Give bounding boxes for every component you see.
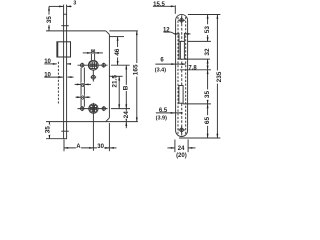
arrow dim10r1 left xyxy=(67,63,71,65)
svg-text:10: 10 xyxy=(44,59,51,65)
label 8 mid1 xyxy=(81,82,84,87)
dim 10 row2 right tail xyxy=(67,76,73,78)
svg-text:(3.9): (3.9) xyxy=(156,115,167,121)
svg-text:46: 46 xyxy=(114,48,121,56)
latch bolt edge inside cutout xyxy=(179,41,181,59)
top hub hatch xyxy=(91,62,93,69)
dim column line 53/32/35/65 xyxy=(207,15,209,42)
dim 21.5 line xyxy=(118,76,120,108)
bottom hub vertical centerline down to A row xyxy=(92,103,94,151)
right ext line bolt cutout bottom xyxy=(183,103,211,105)
arrow dim3 right xyxy=(59,5,63,7)
strip bottom cap xyxy=(63,138,67,140)
arrow dim8m2 right xyxy=(77,96,81,98)
faceplate side view strip right edge xyxy=(66,14,68,139)
dim 6 (3.4) leader xyxy=(155,63,185,65)
svg-text:30: 30 xyxy=(97,144,104,150)
dim 8 top ext lines xyxy=(90,49,92,60)
ext case right down to A row xyxy=(108,123,110,151)
svg-text:A: A xyxy=(76,144,81,150)
right ext line latch cutout bottom xyxy=(184,58,210,60)
svg-text:8: 8 xyxy=(81,83,84,89)
svg-text:24: 24 xyxy=(178,146,185,152)
arrow dim30 right inside xyxy=(105,147,109,149)
arrow dim165 down xyxy=(136,117,138,121)
case bottom edge + ext both sides xyxy=(46,121,106,123)
dim 35 top line xyxy=(48,6,50,31)
case top edge + ext both sides xyxy=(46,30,106,32)
arrow dim8top right xyxy=(87,52,91,54)
faceplate side view strip left edge xyxy=(63,14,65,139)
right ext line at bottom hub 108.6 xyxy=(111,108,130,110)
right ext line at 36.6 for dim 46 xyxy=(109,36,124,38)
label 35 top xyxy=(46,15,51,25)
screw below top hub xyxy=(91,75,95,79)
arrow dim10r1 right xyxy=(53,63,57,65)
dim 24(20) ext lines xyxy=(174,140,176,153)
dim 35 bottom line xyxy=(48,122,50,139)
case bottom right chamfer xyxy=(106,118,110,122)
dim A line xyxy=(64,147,93,149)
dim 8 mid1 arrow lines xyxy=(75,83,81,85)
label 8 top xyxy=(92,50,95,54)
arrow dim35bot down xyxy=(48,135,50,139)
hidden case dashed line right xyxy=(185,17,187,135)
arrows dim235 xyxy=(216,15,218,19)
label 65 xyxy=(204,115,209,126)
arrow dim35bot up xyxy=(48,122,50,126)
label 30 xyxy=(97,143,104,149)
dim 8 mid2 arrow lines xyxy=(76,96,82,98)
arrow dim165 up xyxy=(136,31,138,35)
right ext line 7.8 level xyxy=(180,69,211,71)
svg-text:35: 35 xyxy=(46,16,53,24)
dim 46 line xyxy=(117,37,119,66)
strip tick lower xyxy=(61,130,69,132)
dim 24(20) arrow tails xyxy=(167,147,174,149)
top hub vertical centerline to screw below xyxy=(92,70,94,82)
arrow dim10r2 right xyxy=(59,76,63,78)
ext line strip bottom level left xyxy=(46,138,63,140)
top hub square hole xyxy=(90,62,97,69)
top left screw xyxy=(80,63,84,67)
label 53 xyxy=(204,24,209,35)
label B xyxy=(123,85,127,91)
faceplate front view outline (stadium) xyxy=(176,14,188,136)
svg-text:12: 12 xyxy=(163,28,170,34)
dim B line xyxy=(125,65,127,108)
label A xyxy=(76,143,81,149)
right ext line at 76.3 xyxy=(109,75,122,77)
deadbolt cutout xyxy=(179,86,183,104)
arrow dimB down xyxy=(125,104,127,108)
dashed latch projection line xyxy=(57,62,59,104)
arrow dim8top left xyxy=(95,52,99,54)
case right edge xyxy=(108,35,110,118)
right ext line at hub center 65.2 xyxy=(111,64,130,66)
latch bolt rectangle xyxy=(57,42,71,57)
bottom right screw xyxy=(102,107,106,111)
arrows column 53/32/35/65 xyxy=(207,15,209,19)
arrow dimB up xyxy=(125,65,127,69)
svg-text:65: 65 xyxy=(204,117,211,125)
bottom hub hatch xyxy=(91,105,93,112)
arrow dim8m2 left xyxy=(84,96,88,98)
arrow dim6 right at plate edge xyxy=(171,63,175,65)
arrow dim15.5 right xyxy=(171,5,175,7)
svg-text:(3.4): (3.4) xyxy=(155,67,166,73)
arrows dim24(20) xyxy=(171,147,175,149)
dim 3 line left / dim 35 top ref xyxy=(49,5,63,7)
arrow dim21.5 down xyxy=(118,104,120,108)
label 165 xyxy=(133,63,138,77)
label 8 mid2 xyxy=(81,95,84,100)
svg-text:32: 32 xyxy=(204,48,211,56)
arrow dim21.5 up xyxy=(118,76,120,80)
dim 10 row1 leader line xyxy=(44,63,57,65)
dim 235 line xyxy=(216,15,218,139)
arrow dim12 right xyxy=(175,33,179,35)
strip tick upper xyxy=(61,25,69,27)
arrow dim8m1 left xyxy=(84,83,88,85)
arrow dimA left xyxy=(64,147,68,149)
arrow dim8m1 right xyxy=(77,83,81,85)
dim 15.5 underline and leader xyxy=(153,5,175,7)
dim 24 line xyxy=(125,109,127,122)
arrow dim6.5 right at plate edge xyxy=(171,112,175,114)
strip top cap xyxy=(63,13,67,15)
svg-text:15.5: 15.5 xyxy=(153,2,165,8)
label 24 right column xyxy=(124,111,129,119)
svg-text:35: 35 xyxy=(204,91,211,99)
svg-text:7.8: 7.8 xyxy=(188,65,197,71)
dim 24 outside tail below xyxy=(125,122,127,129)
top right screw xyxy=(102,63,106,67)
arrow dim10r2 left xyxy=(67,76,71,78)
svg-text:6: 6 xyxy=(160,58,164,64)
top hub row centerline xyxy=(78,64,108,66)
plate centre dashed line xyxy=(181,15,183,136)
svg-text:21.5: 21.5 xyxy=(112,75,119,88)
arrow dim35top up xyxy=(48,6,50,10)
svg-text:10: 10 xyxy=(44,72,51,78)
dim 30 line with outside tail xyxy=(93,147,109,149)
svg-text:235: 235 xyxy=(216,71,223,82)
arrow dim46 down xyxy=(117,61,119,65)
bottom hub row centerline xyxy=(78,108,108,110)
svg-text:24: 24 xyxy=(123,111,130,119)
right ext line plate bottom xyxy=(179,137,220,139)
svg-text:8: 8 xyxy=(91,50,94,56)
case top right chamfer xyxy=(106,31,110,35)
dim 8 mid1 ext lines xyxy=(80,68,82,107)
dim 12 leader xyxy=(171,32,175,34)
top hub follower circle xyxy=(88,60,98,70)
bottom hub follower circle xyxy=(89,104,98,113)
arrow dim24 up outside xyxy=(125,122,127,126)
svg-text:3: 3 xyxy=(73,1,76,7)
svg-text:B: B xyxy=(122,85,129,90)
dim 165 line xyxy=(136,31,138,122)
dim 12 right tail xyxy=(185,33,191,35)
top screw circle xyxy=(180,19,184,23)
dim 8 top arrow lines xyxy=(83,52,92,54)
arrow dim3 left xyxy=(67,5,71,7)
hidden case dashed line left xyxy=(177,17,179,135)
svg-text:(20): (20) xyxy=(176,153,187,159)
dim 6.5 (3.9) leader xyxy=(156,112,182,114)
dim 12 ext lines xyxy=(178,33,180,42)
label 35 bottom xyxy=(45,124,50,135)
arrow dim30 left outside xyxy=(110,147,114,149)
arrow dim6 right at dashed line xyxy=(182,63,186,65)
dim 10 row2 leader line xyxy=(44,76,63,78)
arrow dim6.5 left at dashed line xyxy=(178,112,182,114)
label 46 xyxy=(114,47,119,57)
right ext line plate top xyxy=(188,14,221,16)
arrow dim35top down xyxy=(48,27,50,31)
arrow dim12 left xyxy=(184,33,188,35)
arrow dim24 down xyxy=(125,117,127,121)
svg-text:6.5: 6.5 xyxy=(159,108,168,114)
dim 3 tail right xyxy=(67,5,72,7)
bottom hub square hole xyxy=(90,105,97,112)
dim 12 underline xyxy=(164,31,172,33)
arrow dimA right xyxy=(89,147,93,149)
bottom screw circle xyxy=(180,128,184,132)
dim 10 row1 right tail xyxy=(67,63,71,65)
ext lines above strip for dim 3 xyxy=(63,5,65,15)
bottom left screw xyxy=(80,107,84,111)
arrow dim46 up xyxy=(117,37,119,41)
dim 15.5 ref vertical ext xyxy=(174,5,176,14)
svg-text:8: 8 xyxy=(81,95,84,101)
ext strip down to A row xyxy=(63,140,65,152)
svg-text:53: 53 xyxy=(204,26,211,34)
label 35 right xyxy=(204,89,209,99)
svg-text:35: 35 xyxy=(45,126,52,134)
label 235 xyxy=(217,70,222,83)
latch cutout xyxy=(179,41,184,59)
right ext line latch cutout top xyxy=(188,40,211,42)
svg-text:165: 165 xyxy=(133,64,140,75)
